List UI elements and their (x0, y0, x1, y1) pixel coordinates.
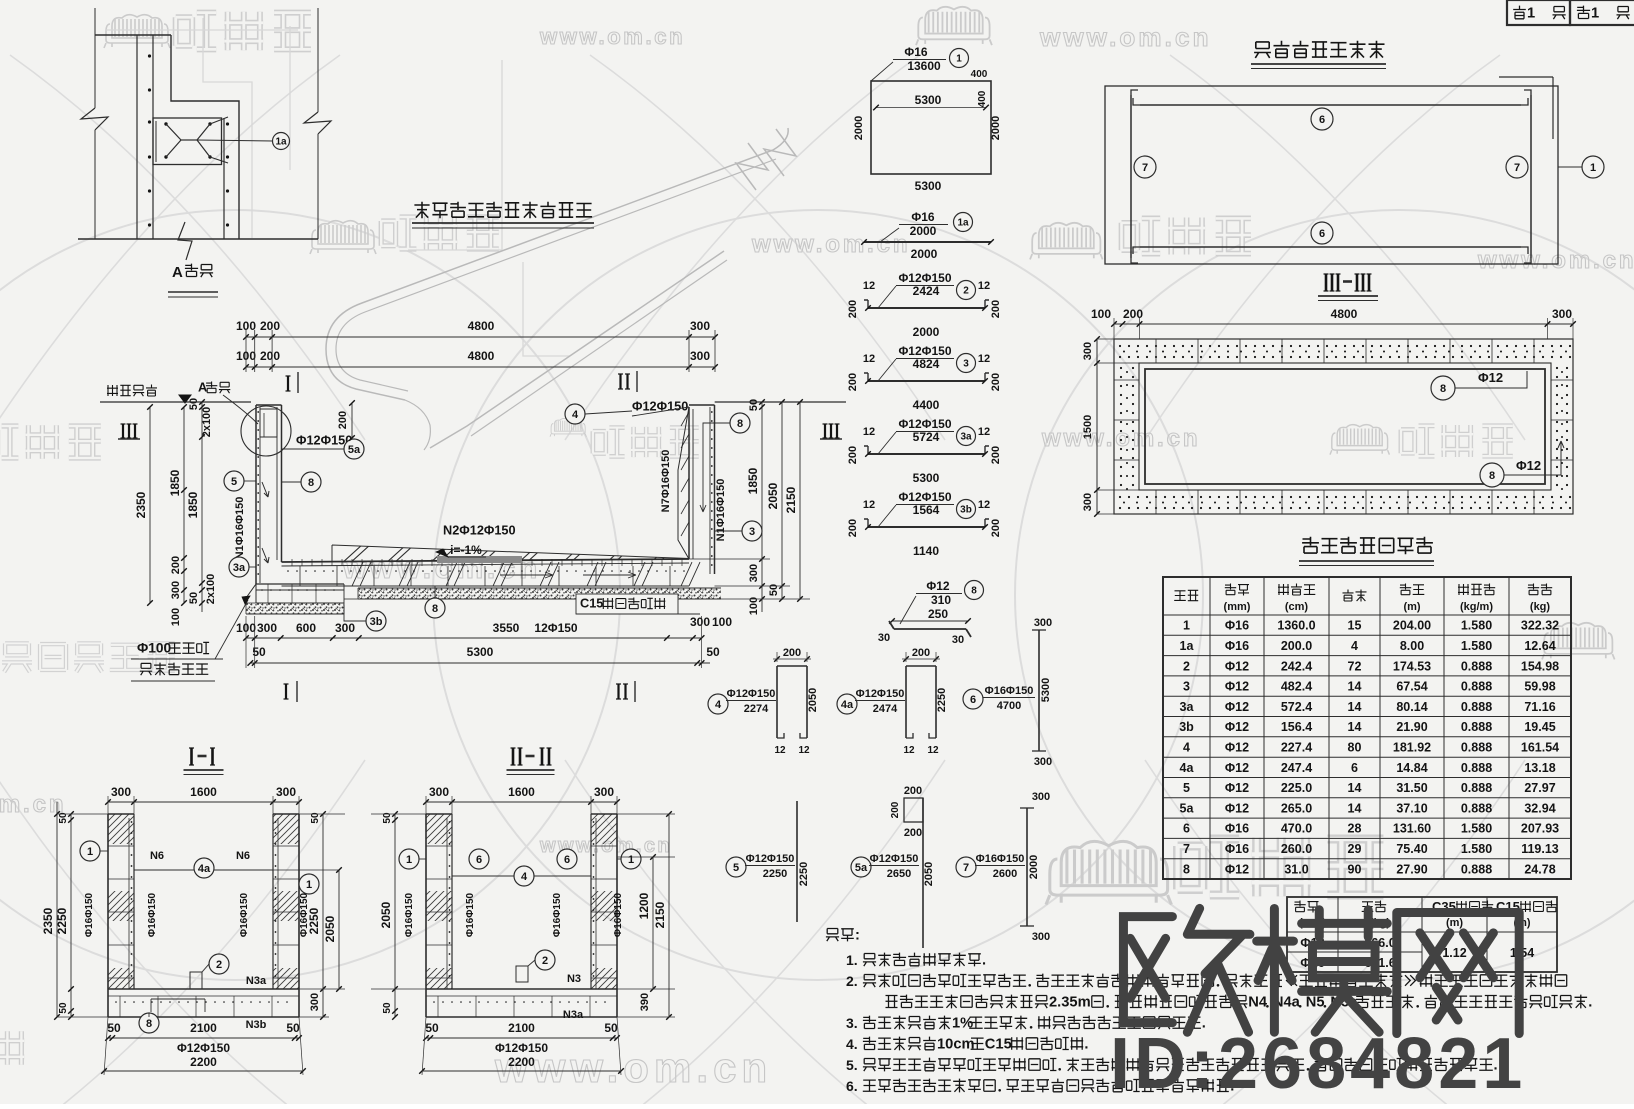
svg-text:1: 1 (628, 854, 634, 866)
svg-text:7: 7 (1142, 162, 1148, 174)
svg-text:2.35m: 2.35m (1049, 994, 1091, 1010)
svg-text:Φ16: Φ16 (1225, 822, 1249, 836)
svg-text:1.12: 1.12 (1442, 946, 1466, 960)
svg-text:N1Φ16Φ150: N1Φ16Φ150 (234, 497, 246, 560)
svg-text:1: 1 (956, 54, 962, 65)
svg-text:482.4: 482.4 (1281, 680, 1312, 694)
svg-text:6: 6 (1319, 114, 1325, 126)
svg-text:156.4: 156.4 (1281, 720, 1312, 734)
svg-text:12Φ150: 12Φ150 (534, 621, 578, 635)
svg-text:2050: 2050 (766, 482, 780, 509)
svg-text:14.84: 14.84 (1396, 761, 1427, 775)
svg-text:N5: N5 (1306, 994, 1325, 1010)
svg-text:100: 100 (748, 597, 760, 615)
svg-text:13600: 13600 (907, 59, 941, 73)
svg-text:1: 1 (1527, 5, 1535, 21)
svg-text:N3: N3 (567, 973, 581, 985)
svg-text:2250: 2250 (763, 868, 787, 880)
svg-text:Φ12Φ150: Φ12Φ150 (898, 417, 951, 431)
svg-text:2100: 2100 (508, 1021, 535, 1035)
svg-text:300: 300 (1032, 791, 1050, 803)
svg-text:A: A (172, 264, 183, 281)
svg-text:1a: 1a (1180, 639, 1195, 653)
svg-text:2250: 2250 (307, 907, 321, 934)
svg-text:3: 3 (963, 359, 969, 370)
svg-text:72: 72 (1348, 659, 1362, 673)
svg-text:6: 6 (1183, 822, 1190, 836)
svg-text:300: 300 (690, 615, 710, 629)
svg-text:N3a: N3a (563, 1009, 584, 1021)
svg-text:2350: 2350 (41, 907, 55, 934)
svg-text:13.18: 13.18 (1524, 761, 1555, 775)
svg-text:Φ12: Φ12 (1478, 370, 1503, 385)
svg-text:8: 8 (1183, 862, 1190, 876)
svg-text:8.00: 8.00 (1400, 639, 1424, 653)
svg-text:19.45: 19.45 (1524, 720, 1555, 734)
svg-text:2424: 2424 (913, 284, 940, 298)
svg-text:200: 200 (337, 411, 349, 429)
svg-text:Φ12Φ150: Φ12Φ150 (727, 688, 776, 700)
svg-text:2050: 2050 (807, 688, 819, 712)
svg-text:28: 28 (1348, 822, 1362, 836)
svg-text:5.: 5. (846, 1057, 858, 1073)
svg-text:0.888: 0.888 (1461, 781, 1492, 795)
svg-text:4800: 4800 (1331, 307, 1358, 321)
svg-text:3550: 3550 (493, 621, 520, 635)
svg-text:300: 300 (690, 349, 710, 363)
svg-text:Φ16: Φ16 (911, 210, 935, 224)
svg-text:(cm): (cm) (1285, 601, 1309, 613)
svg-text:Φ12: Φ12 (1225, 781, 1249, 795)
svg-text:200: 200 (904, 785, 922, 797)
svg-text:2.: 2. (846, 973, 858, 989)
svg-text:0.888: 0.888 (1461, 700, 1492, 714)
svg-text:12: 12 (863, 499, 875, 511)
svg-text:4700: 4700 (997, 700, 1021, 712)
svg-text:265.0: 265.0 (1281, 801, 1312, 815)
svg-text:200: 200 (847, 446, 859, 464)
svg-text:(m): (m) (1446, 917, 1463, 929)
svg-text:5a: 5a (1180, 801, 1195, 815)
svg-text:1: 1 (1591, 5, 1599, 21)
svg-text:300: 300 (690, 319, 710, 333)
svg-text:50: 50 (107, 1021, 121, 1035)
svg-text:1: 1 (1183, 619, 1190, 633)
svg-text:14: 14 (1348, 700, 1362, 714)
svg-text:300: 300 (594, 785, 614, 799)
svg-text:390: 390 (639, 993, 651, 1011)
svg-text:0.888: 0.888 (1461, 862, 1492, 876)
svg-text:N6: N6 (236, 850, 250, 862)
svg-text:i=-1%: i=-1% (450, 543, 482, 557)
svg-text:12: 12 (903, 745, 915, 756)
svg-text:0.888: 0.888 (1461, 680, 1492, 694)
svg-text:300: 300 (170, 581, 182, 599)
svg-text:(mm): (mm) (1224, 601, 1251, 613)
svg-text:207.93: 207.93 (1521, 822, 1559, 836)
svg-text:200: 200 (990, 446, 1002, 464)
svg-text:8: 8 (737, 418, 743, 430)
svg-text:Φ16: Φ16 (904, 45, 928, 59)
svg-text:50: 50 (748, 399, 760, 411)
svg-text:2050: 2050 (379, 901, 393, 928)
svg-text:5: 5 (733, 862, 739, 874)
svg-text:Φ16Φ150: Φ16Φ150 (985, 685, 1034, 697)
svg-text:2000: 2000 (910, 224, 937, 238)
svg-text:300: 300 (1552, 307, 1572, 321)
svg-text:3a: 3a (960, 432, 972, 443)
svg-text:8: 8 (308, 477, 314, 489)
svg-text:Φ12: Φ12 (1225, 741, 1249, 755)
svg-text:12: 12 (798, 745, 810, 756)
svg-text:227.4: 227.4 (1281, 741, 1312, 755)
svg-text:4: 4 (572, 409, 579, 421)
svg-text:12: 12 (927, 745, 939, 756)
svg-text:119.13: 119.13 (1521, 842, 1559, 856)
svg-text:Φ16: Φ16 (1225, 639, 1249, 653)
svg-text:12: 12 (774, 745, 786, 756)
svg-text:80.14: 80.14 (1396, 700, 1427, 714)
svg-text:90: 90 (1348, 862, 1362, 876)
svg-text:260.0: 260.0 (1281, 842, 1312, 856)
svg-text:Φ12: Φ12 (1225, 720, 1249, 734)
svg-text:.: . (1084, 1036, 1088, 1052)
svg-text:2250: 2250 (55, 907, 69, 934)
svg-text:30: 30 (878, 632, 890, 644)
svg-text:N6: N6 (150, 850, 164, 862)
svg-text:Φ12Φ150: Φ12Φ150 (856, 688, 905, 700)
svg-text:322.32: 322.32 (1521, 619, 1559, 633)
svg-text:300: 300 (1082, 342, 1094, 360)
svg-text:29: 29 (1348, 842, 1362, 856)
svg-text:A: A (198, 380, 207, 395)
svg-text:6: 6 (564, 854, 570, 866)
svg-text:30: 30 (952, 634, 964, 646)
svg-text:200: 200 (847, 300, 859, 318)
svg-text:181.92: 181.92 (1393, 741, 1431, 755)
svg-text:400: 400 (971, 69, 988, 80)
svg-text:200: 200 (260, 349, 280, 363)
svg-text:12: 12 (978, 353, 990, 365)
svg-text:C15: C15 (580, 596, 603, 611)
svg-text:Φ16Φ150: Φ16Φ150 (976, 853, 1025, 865)
svg-text:4824: 4824 (913, 357, 940, 371)
svg-text:75.40: 75.40 (1396, 842, 1427, 856)
svg-text:1a: 1a (957, 218, 969, 229)
svg-text:4a: 4a (841, 699, 854, 711)
svg-text:200: 200 (890, 801, 901, 818)
svg-text:5300: 5300 (467, 645, 494, 659)
svg-text:2100: 2100 (190, 1021, 217, 1035)
svg-text:200: 200 (847, 519, 859, 537)
svg-text:470.0: 470.0 (1281, 822, 1312, 836)
svg-text:1360.0: 1360.0 (1277, 619, 1315, 633)
svg-text:1: 1 (87, 846, 93, 858)
svg-text:572.4: 572.4 (1281, 700, 1312, 714)
svg-text:31.0: 31.0 (1284, 862, 1308, 876)
svg-text:1.580: 1.580 (1461, 639, 1492, 653)
svg-text:2150: 2150 (784, 486, 798, 513)
svg-text:2: 2 (1183, 659, 1190, 673)
svg-text:Φ12: Φ12 (1225, 700, 1249, 714)
svg-text:27.90: 27.90 (1396, 862, 1427, 876)
svg-text:1200: 1200 (637, 892, 651, 919)
svg-text:1.580: 1.580 (1461, 842, 1492, 856)
svg-text:Φ12Φ150: Φ12Φ150 (898, 271, 951, 285)
svg-text:1.: 1. (846, 952, 858, 968)
svg-text:154.98: 154.98 (1521, 659, 1559, 673)
svg-text:1600: 1600 (508, 785, 535, 799)
svg-text:200: 200 (783, 647, 801, 659)
svg-text:2600: 2600 (993, 868, 1017, 880)
svg-text:50: 50 (286, 1021, 300, 1035)
svg-text:N4: N4 (1248, 994, 1268, 1010)
svg-text:24.78: 24.78 (1524, 862, 1555, 876)
svg-text:400: 400 (977, 90, 988, 107)
svg-text:N3a: N3a (246, 975, 267, 987)
svg-text:1.580: 1.580 (1461, 619, 1492, 633)
svg-text:2650: 2650 (887, 868, 911, 880)
svg-text:Φ100: Φ100 (137, 641, 172, 656)
svg-text:300: 300 (1082, 493, 1094, 511)
svg-text:27.97: 27.97 (1524, 781, 1555, 795)
svg-text:31.50: 31.50 (1396, 781, 1427, 795)
svg-text:6: 6 (476, 854, 482, 866)
svg-text:32.94: 32.94 (1524, 801, 1555, 815)
svg-text:3b: 3b (960, 505, 972, 516)
svg-text:14: 14 (1348, 680, 1362, 694)
svg-text:50: 50 (425, 1021, 439, 1035)
svg-text:1: 1 (1590, 162, 1596, 174)
svg-text:100: 100 (170, 608, 182, 626)
svg-text:.: . (1588, 994, 1592, 1010)
svg-text:2x100: 2x100 (205, 574, 217, 605)
svg-text:Φ12: Φ12 (1516, 458, 1541, 473)
svg-text:300: 300 (748, 564, 760, 582)
svg-text:5300: 5300 (915, 179, 942, 193)
svg-text:Φ12: Φ12 (1225, 862, 1249, 876)
svg-text:200: 200 (912, 647, 930, 659)
svg-text:(m): (m) (1403, 601, 1420, 613)
svg-text:4800: 4800 (468, 349, 495, 363)
svg-text:Φ12: Φ12 (1225, 761, 1249, 775)
svg-text:Φ12: Φ12 (926, 579, 950, 593)
svg-text:50: 50 (188, 592, 200, 604)
svg-text:2474: 2474 (873, 703, 898, 715)
svg-text:Φ16Φ150: Φ16Φ150 (404, 892, 415, 937)
svg-text:3b: 3b (370, 616, 383, 628)
svg-text:50: 50 (58, 1002, 69, 1014)
svg-text:2x100: 2x100 (201, 407, 213, 438)
svg-text:250: 250 (928, 607, 948, 621)
svg-text:0.888: 0.888 (1461, 659, 1492, 673)
svg-text:2: 2 (963, 286, 969, 297)
svg-text:300: 300 (335, 621, 355, 635)
svg-text:1: 1 (306, 879, 312, 891)
svg-text:14: 14 (1348, 781, 1362, 795)
svg-text:4a: 4a (198, 863, 211, 875)
svg-text:3.: 3. (846, 1015, 858, 1031)
svg-text:6: 6 (1319, 228, 1325, 240)
svg-text:5a: 5a (855, 862, 868, 874)
svg-text:2000: 2000 (1028, 855, 1040, 879)
svg-text:50: 50 (604, 1021, 618, 1035)
svg-text:Φ16Φ150: Φ16Φ150 (613, 892, 624, 937)
svg-text:5724: 5724 (913, 430, 940, 444)
svg-text:2000: 2000 (911, 247, 938, 261)
svg-text:12: 12 (863, 280, 875, 292)
svg-text:67.54: 67.54 (1396, 680, 1427, 694)
svg-text:Φ16Φ150: Φ16Φ150 (465, 892, 476, 937)
svg-text:247.4: 247.4 (1281, 761, 1312, 775)
svg-text:8: 8 (971, 586, 977, 597)
svg-text:14: 14 (1348, 720, 1362, 734)
svg-text:5300: 5300 (915, 93, 942, 107)
svg-text:Φ16Φ150: Φ16Φ150 (552, 892, 563, 937)
svg-text:2: 2 (542, 955, 548, 967)
svg-text:8: 8 (1440, 383, 1446, 395)
svg-text:310: 310 (931, 593, 951, 607)
svg-text:5300: 5300 (1040, 678, 1052, 702)
svg-text:www.om.cn: www.om.cn (1477, 247, 1634, 274)
svg-text:Φ16Φ150: Φ16Φ150 (147, 892, 158, 937)
svg-text:Φ12: Φ12 (1225, 801, 1249, 815)
svg-text:200: 200 (170, 556, 182, 574)
svg-text:5300: 5300 (913, 471, 940, 485)
svg-text:2350: 2350 (134, 491, 148, 518)
svg-text:15: 15 (1348, 619, 1362, 633)
svg-text:Φ16: Φ16 (1225, 842, 1249, 856)
svg-text:www.om.cn: www.om.cn (751, 231, 910, 258)
svg-text:300: 300 (1034, 617, 1052, 629)
svg-text:N1Φ16Φ150: N1Φ16Φ150 (715, 479, 727, 542)
svg-text:0.888: 0.888 (1461, 720, 1492, 734)
svg-text:N7Φ16Φ150: N7Φ16Φ150 (660, 450, 672, 513)
svg-text:80: 80 (1348, 741, 1362, 755)
svg-text:300: 300 (429, 785, 449, 799)
svg-text:12.64: 12.64 (1524, 639, 1555, 653)
svg-text:174.53: 174.53 (1393, 659, 1431, 673)
svg-text:3a: 3a (233, 562, 246, 574)
svg-text:2200: 2200 (190, 1055, 217, 1069)
svg-text:2000: 2000 (913, 325, 940, 339)
svg-text:4.: 4. (846, 1036, 858, 1052)
svg-text:600: 600 (296, 621, 316, 635)
svg-text:12: 12 (978, 499, 990, 511)
svg-text:1564: 1564 (913, 503, 940, 517)
svg-text:2050: 2050 (923, 862, 935, 886)
svg-text:2150: 2150 (653, 901, 667, 928)
svg-text:(kg/m): (kg/m) (1460, 601, 1493, 613)
svg-text:50: 50 (188, 398, 200, 410)
svg-text:12: 12 (978, 280, 990, 292)
svg-text:50: 50 (706, 645, 720, 659)
svg-text:3a: 3a (1180, 700, 1195, 714)
svg-text:Φ12Φ150: Φ12Φ150 (898, 344, 951, 358)
svg-text:Φ12: Φ12 (1225, 680, 1249, 694)
svg-text:1850: 1850 (746, 467, 760, 494)
svg-text:4: 4 (1183, 741, 1190, 755)
svg-text:300: 300 (1034, 756, 1052, 768)
svg-text:12: 12 (863, 353, 875, 365)
svg-text:300: 300 (309, 993, 321, 1011)
svg-text:2200: 2200 (508, 1055, 535, 1069)
svg-text:4: 4 (521, 871, 528, 883)
svg-text:3: 3 (749, 526, 755, 538)
svg-text:300: 300 (276, 785, 296, 799)
svg-text:2: 2 (216, 959, 222, 971)
svg-text:200: 200 (1123, 307, 1143, 321)
svg-text:7: 7 (1514, 162, 1520, 174)
svg-text:0.888: 0.888 (1461, 801, 1492, 815)
svg-text:3b: 3b (1179, 720, 1194, 734)
svg-text:Φ12Φ150: Φ12Φ150 (898, 490, 951, 504)
svg-text:C15: C15 (985, 1036, 1012, 1052)
svg-text:1a: 1a (275, 137, 287, 148)
svg-text:2000: 2000 (853, 116, 865, 140)
svg-text:200: 200 (990, 519, 1002, 537)
svg-text:59.98: 59.98 (1524, 680, 1555, 694)
svg-text:200: 200 (904, 827, 922, 839)
svg-text::: : (855, 927, 860, 943)
svg-text:2274: 2274 (744, 703, 769, 715)
svg-text:N3b: N3b (246, 1019, 267, 1031)
svg-text:Φ12Φ150: Φ12Φ150 (296, 433, 352, 448)
svg-text:4400: 4400 (913, 398, 940, 412)
svg-text:Φ12Φ150: Φ12Φ150 (177, 1041, 230, 1055)
svg-text:2050: 2050 (323, 915, 337, 942)
svg-text:300: 300 (111, 785, 131, 799)
svg-text:.: . (982, 952, 986, 968)
svg-text:131.60: 131.60 (1393, 822, 1431, 836)
svg-text:www.om.cn: www.om.cn (539, 24, 685, 49)
svg-text:Φ12Φ150: Φ12Φ150 (870, 853, 919, 865)
svg-text:8: 8 (1489, 470, 1495, 482)
svg-text:Φ16Φ150: Φ16Φ150 (239, 892, 250, 937)
svg-text:N2Φ12Φ150: N2Φ12Φ150 (443, 523, 516, 538)
svg-text:5a: 5a (348, 444, 361, 456)
svg-text:2250: 2250 (936, 688, 948, 712)
svg-text:Φ12Φ150: Φ12Φ150 (746, 853, 795, 865)
svg-text:12: 12 (863, 426, 875, 438)
svg-text:1850: 1850 (168, 469, 182, 496)
svg-text:4: 4 (715, 699, 722, 711)
svg-text:5: 5 (231, 476, 237, 488)
svg-text:6: 6 (970, 694, 976, 706)
svg-text:200.0: 200.0 (1281, 639, 1312, 653)
svg-text:300: 300 (1032, 931, 1050, 943)
svg-text:Φ12Φ150: Φ12Φ150 (495, 1041, 548, 1055)
svg-text:4800: 4800 (468, 319, 495, 333)
svg-text:161.54: 161.54 (1521, 741, 1559, 755)
svg-text:242.4: 242.4 (1281, 659, 1312, 673)
svg-text:7: 7 (963, 862, 969, 874)
svg-text:225.0: 225.0 (1281, 781, 1312, 795)
svg-text:1.580: 1.580 (1461, 822, 1492, 836)
svg-text:200: 200 (990, 300, 1002, 318)
svg-text:300: 300 (257, 621, 277, 635)
svg-text:2250: 2250 (798, 862, 810, 886)
svg-text:7: 7 (1183, 842, 1190, 856)
svg-text:www.om.cn: www.om.cn (1039, 22, 1212, 52)
svg-text:2000: 2000 (990, 116, 1002, 140)
svg-text:ID:2684821: ID:2684821 (1110, 1024, 1526, 1104)
svg-text:204.00: 204.00 (1393, 619, 1431, 633)
svg-text:Φ16: Φ16 (1225, 619, 1249, 633)
svg-text:0.888: 0.888 (1461, 761, 1492, 775)
svg-text:4: 4 (1351, 639, 1358, 653)
svg-text:50: 50 (382, 1002, 393, 1014)
